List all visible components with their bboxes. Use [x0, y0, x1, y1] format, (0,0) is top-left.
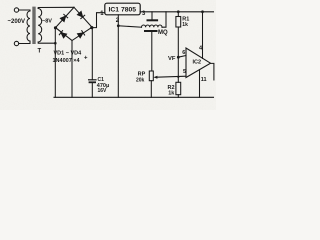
bridge diamond side bottom-right — [72, 27, 92, 40]
svg-text:IC2: IC2 — [193, 60, 202, 66]
wire 7805 pin 2 ground down to rail — [117, 15, 119, 98]
bridge diamond side top-left — [56, 7, 75, 27]
svg-text:~8V: ~8V — [42, 19, 52, 25]
svg-text:+: + — [84, 56, 88, 62]
potentiometer RP body — [149, 71, 153, 81]
gas sensor MQ heater feed wire from ground — [118, 26, 141, 27]
gas sensor MQ plate electrode stem — [151, 12, 153, 19]
diode VD4 (bottom-right of bridge) — [77, 31, 84, 38]
transformer T primary winding — [27, 11, 30, 41]
wire VF node to op-amp pin 6 — [178, 56, 186, 58]
node R1 rail tap — [177, 10, 180, 13]
node VF junction — [177, 56, 180, 59]
bridge diamond side bottom-left — [56, 28, 73, 41]
svg-text:6: 6 — [182, 50, 185, 56]
wire secondary bottom — [38, 42, 55, 43]
svg-text:IC1 7805: IC1 7805 — [109, 6, 137, 13]
terminal bottom-left input — [14, 41, 18, 45]
ground rail — [54, 96, 214, 98]
transformer T secondary winding — [38, 9, 42, 43]
terminal top-left input — [14, 8, 18, 12]
diode VD1 (top-left of bridge) — [60, 14, 67, 21]
svg-text:1k: 1k — [182, 22, 188, 28]
svg-text:~200V: ~200V — [8, 19, 26, 25]
svg-text:1N4007 ×4: 1N4007 ×4 — [53, 58, 81, 64]
gas sensor MQ top plate — [147, 19, 159, 21]
wire op-amp pin 4 power from rail — [202, 12, 204, 59]
node secondary-bottom junction — [54, 42, 57, 45]
wire left vertex down to ground rail — [54, 28, 56, 98]
wire 7805 pin 3 output rail to right edge — [140, 11, 213, 13]
node right vertex junction — [90, 26, 93, 29]
wire op-amp pin 11 to ground rail — [199, 70, 201, 98]
resistor R2 body — [176, 82, 181, 94]
svg-text:16V: 16V — [98, 88, 108, 94]
capacitor C1 plates — [89, 79, 96, 81]
wire from primary to bottom terminal — [19, 41, 30, 44]
potentiometer RP wiper arrow to pin 5 — [157, 76, 186, 77]
node heater-ground junction — [117, 24, 120, 27]
svg-text:1k: 1k — [168, 90, 175, 96]
diode VD2 (top-right of bridge) — [77, 11, 84, 18]
node left vertex junction — [54, 26, 57, 29]
capacitor C1 positive lead — [91, 28, 93, 80]
svg-text:VD1 ~ VD4: VD1 ~ VD4 — [54, 51, 83, 57]
svg-text:T: T — [38, 49, 42, 55]
transformer core — [33, 7, 35, 43]
wire MQ bottom electrode down to RP — [151, 32, 153, 71]
svg-text:VF: VF — [168, 56, 176, 62]
wire secondary top to bridge top vertex — [38, 7, 74, 8]
wire from top terminal to primary — [19, 10, 30, 11]
node wiper crossing blob — [177, 76, 179, 78]
wire R2 bottom to ground rail — [177, 95, 179, 98]
svg-text:MQ: MQ — [158, 30, 168, 36]
wire op-amp output — [211, 63, 214, 80]
gas sensor MQ bottom electrode — [144, 30, 158, 32]
wire bridge bottom vertex down to ground rail — [71, 41, 73, 98]
gas sensor MQ heater coil — [142, 25, 163, 27]
resistor R1 body — [176, 17, 181, 28]
diode VD3 (bottom-left of bridge) — [59, 31, 66, 38]
node pin4 rail tap — [201, 10, 204, 13]
wire heater coil right end to +5V rail — [162, 12, 166, 27]
wire bridge + output to 7805 pin 1 — [92, 13, 105, 28]
svg-text:11: 11 — [201, 77, 207, 83]
bridge diamond side top-right — [74, 7, 92, 27]
svg-text:5: 5 — [183, 69, 186, 75]
IC1 7805 regulator box — [105, 3, 140, 15]
capacitor C1 negative lead — [91, 83, 93, 97]
svg-text:20k: 20k — [136, 78, 145, 84]
wire RP bottom to ground rail — [150, 81, 152, 98]
wire R1 bottom to VF node and R2 — [177, 27, 179, 82]
op-amp IC2 comparator triangle — [186, 48, 211, 78]
resistor R1 top lead — [177, 12, 179, 17]
